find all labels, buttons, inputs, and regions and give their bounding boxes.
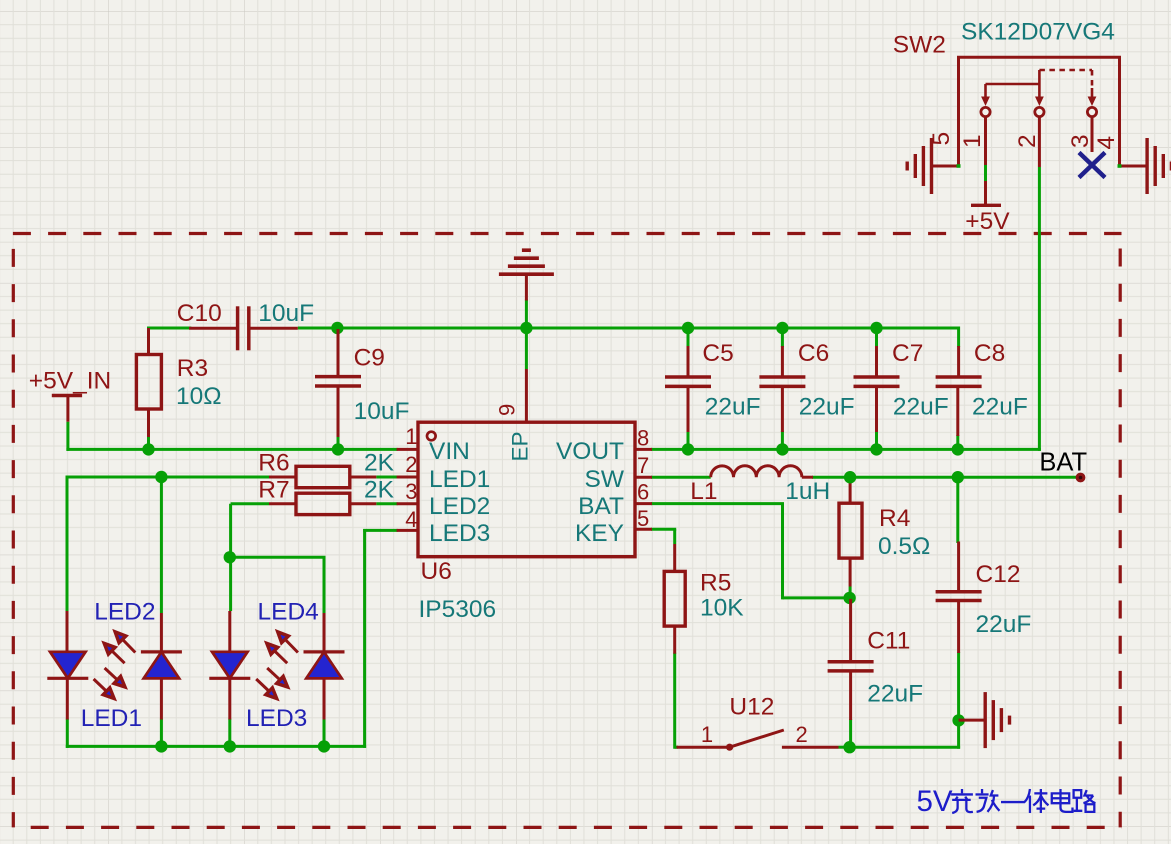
svg-text:C5: C5	[702, 340, 733, 367]
svg-text:VOUT: VOUT	[556, 438, 624, 465]
capacitor C11	[849, 599, 852, 662]
svg-text:SW: SW	[585, 466, 625, 493]
net port BAT terminal	[1076, 473, 1086, 483]
svg-text:0.5Ω: 0.5Ω	[878, 533, 930, 560]
wire LED4 branch horizontal	[228, 556, 325, 559]
wire C5 top stub	[687, 328, 690, 347]
svg-text:9: 9	[495, 404, 520, 416]
svg-text:R6: R6	[258, 450, 289, 477]
wire LED bottom bus horizontal	[66, 745, 366, 748]
dashed module boundary right edge	[1119, 249, 1122, 828]
junction C12/BAT	[952, 471, 964, 483]
hanzi fang	[976, 789, 1000, 812]
wire LED3 bottom	[228, 719, 231, 747]
pin 9 stub U6 EP	[525, 369, 528, 422]
resistor R5	[673, 544, 676, 571]
wire R4 bottom to junction	[849, 587, 852, 599]
svg-text:10K: 10K	[700, 595, 744, 622]
wire SW2 pin 4 to ground	[1120, 165, 1148, 168]
hanzi lu	[1074, 790, 1096, 812]
svg-text:C7: C7	[892, 340, 923, 367]
svg-text:LED3: LED3	[246, 705, 307, 732]
svg-text:L1: L1	[690, 478, 717, 505]
svg-text:U12: U12	[729, 694, 774, 721]
wire C6 top stub	[781, 328, 784, 347]
pin 7 stub U6 SW	[635, 476, 652, 479]
pin 4 stub U6 LED3	[397, 529, 418, 532]
inductor L1	[711, 466, 802, 477]
junction C8 bottom	[952, 443, 964, 455]
svg-text:C9: C9	[354, 344, 385, 371]
pin 5 stub U6 KEY	[635, 528, 652, 531]
dashed module boundary top edge	[13, 232, 1122, 235]
LED1 emission arrows	[105, 668, 119, 681]
wire R7 right to pin 3	[376, 502, 397, 505]
switch SW2 pin 1 lead	[984, 117, 987, 165]
svg-text:2: 2	[405, 452, 417, 477]
LED3 diode	[228, 611, 231, 652]
hanzi yi	[1001, 801, 1025, 803]
resistor R4	[839, 503, 862, 558]
svg-text:R5: R5	[700, 569, 731, 596]
svg-text:LED4: LED4	[258, 599, 319, 626]
svg-text:22uF: 22uF	[893, 393, 949, 420]
svg-text:3: 3	[1067, 134, 1094, 148]
node SW2 pin 5 connection	[957, 164, 961, 168]
wire pin1 to +5V	[984, 165, 987, 181]
wire C12 junction to ground	[959, 719, 986, 722]
junction EP ground bus	[520, 322, 532, 334]
op-amp U6 IP5306 body	[418, 422, 635, 557]
svg-text:C8: C8	[974, 340, 1005, 367]
ground right of SW2	[1145, 138, 1148, 194]
svg-text:SK12D07VG4: SK12D07VG4	[961, 19, 1115, 46]
no-connect X on SW2 pin 3	[1079, 153, 1105, 178]
junction R4/BAT	[844, 471, 856, 483]
wire LED1 top vertical	[66, 476, 69, 612]
svg-text:LED1: LED1	[429, 466, 490, 493]
svg-text:BAT: BAT	[1039, 448, 1087, 476]
svg-text:1: 1	[405, 424, 417, 449]
svg-text:EP: EP	[508, 431, 533, 461]
svg-text:22uF: 22uF	[867, 680, 923, 707]
wire top bus C10 to C8	[298, 327, 959, 330]
svg-text:R3: R3	[177, 355, 208, 382]
ground left of SW2	[930, 138, 933, 194]
svg-text:2: 2	[1014, 134, 1041, 148]
svg-text:8: 8	[637, 426, 649, 451]
svg-text:1uH: 1uH	[785, 478, 830, 505]
svg-text:5: 5	[928, 132, 955, 146]
wire pin 6 vertical	[781, 504, 784, 600]
svg-text:6: 6	[637, 480, 649, 505]
hanzi dian	[1052, 789, 1073, 812]
svg-text:22uF: 22uF	[976, 611, 1032, 638]
node SW2 pin 4 connection	[1118, 164, 1122, 168]
svg-text:LED2: LED2	[94, 599, 155, 626]
switch U12 blade	[730, 730, 784, 747]
capacitor C10	[189, 327, 238, 330]
switch U12 pin 1 lead	[677, 746, 728, 749]
svg-text:LED2: LED2	[429, 493, 490, 520]
svg-text:SW2: SW2	[893, 32, 946, 59]
wire R5 to U12 pin 1	[675, 746, 678, 749]
svg-text:C10: C10	[177, 300, 222, 327]
svg-text:C12: C12	[976, 561, 1021, 588]
junction C5 top	[682, 322, 694, 334]
junction C7 bottom	[870, 443, 882, 455]
wire net LED12 horizontal	[66, 476, 270, 479]
svg-text:10uF: 10uF	[258, 300, 314, 327]
svg-text:BAT: BAT	[578, 493, 624, 520]
svg-text:+5V: +5V	[965, 208, 1010, 235]
svg-text:R4: R4	[879, 505, 910, 532]
svg-text:5: 5	[637, 506, 649, 531]
wire BAT net to C12	[956, 477, 959, 543]
svg-text:10uF: 10uF	[354, 398, 410, 425]
junction LED2 bottom	[155, 740, 167, 752]
switch SW2 pin 2 lead	[1038, 117, 1041, 167]
switch U12 pivot	[726, 744, 733, 751]
junction LED2 tap	[155, 471, 167, 483]
wire C9 bottom to VIN net	[337, 436, 340, 449]
wire LED34 vertical	[229, 504, 232, 611]
svg-text:2: 2	[796, 722, 808, 747]
hanzi ti	[1025, 789, 1049, 813]
wire R3 top corner	[147, 327, 150, 330]
junction C5 bottom	[682, 443, 694, 455]
wire C8 top corner	[957, 327, 960, 348]
junction LED3/LED4 tap	[224, 551, 236, 563]
junction LED4 bottom	[318, 740, 330, 752]
wire C6 bottom stub	[781, 431, 784, 449]
junction U12/C11	[843, 741, 855, 753]
pin 3 stub U6 LED2	[397, 502, 418, 505]
wire C12 bottom vertical	[957, 652, 960, 749]
switch SW2 pin 3 contact circle	[1087, 107, 1096, 116]
svg-text:22uF: 22uF	[705, 393, 761, 420]
svg-text:7: 7	[637, 453, 649, 478]
switch SW2 frame	[959, 57, 1120, 166]
svg-text:4: 4	[405, 507, 417, 532]
wire U12 pin 2 to junction	[839, 746, 850, 749]
junction C6 bottom	[776, 443, 788, 455]
LED2 emission arrows	[121, 638, 135, 653]
dashed module boundary bottom edge	[31, 826, 1122, 829]
pin 8 stub U6 VOUT	[635, 448, 652, 451]
switch U12 pin 2 lead	[782, 746, 839, 749]
svg-text:5V: 5V	[917, 785, 953, 818]
resistor R7	[269, 502, 296, 505]
LED4 emission arrows	[284, 638, 298, 653]
pin 6 stub U6 BAT	[635, 502, 652, 505]
svg-text:IP5306: IP5306	[419, 596, 497, 623]
wire C7 top stub	[875, 328, 878, 347]
LED3 emission arrows	[267, 668, 281, 681]
earth ground above EP	[499, 272, 554, 276]
dashed module boundary left edge	[12, 249, 15, 828]
capacitor C6	[781, 346, 784, 377]
wire BAT net horizontal	[812, 476, 1078, 479]
wire SW2 pin 5 to ground	[932, 165, 959, 168]
wire LED1 bottom	[66, 719, 69, 748]
switch SW2 arrow onto pin 2	[1038, 84, 1041, 100]
svg-text:10Ω: 10Ω	[176, 383, 222, 410]
switch SW2 dashed alternate link	[1039, 69, 1092, 72]
switch SW2 pin 2 contact circle	[1035, 107, 1044, 116]
wire pin 6 to R4-C11 junction	[783, 596, 850, 599]
wire LED2 bottom	[160, 719, 163, 747]
junction C12/ground	[952, 714, 964, 726]
wire C8 bottom stub	[956, 435, 959, 449]
wire LED4 bottom	[323, 719, 326, 747]
power symbol +5V_IN	[52, 394, 82, 397]
svg-text:C11: C11	[867, 627, 910, 654]
switch SW2 pin 3 lead	[1091, 117, 1094, 152]
svg-text:3: 3	[405, 479, 417, 504]
switch SW2 common arm solid link	[986, 83, 1040, 86]
wire C5 bottom stub	[687, 431, 690, 449]
LED1 diode	[66, 611, 69, 652]
wire R6 right to pin 2	[376, 476, 397, 479]
wire VOUT net horizontal	[651, 448, 1041, 451]
wire pin 4 to LED bus	[363, 529, 397, 532]
svg-text:22uF: 22uF	[799, 393, 855, 420]
pin 1 marker circle inside U6	[427, 432, 436, 441]
svg-text:KEY: KEY	[575, 520, 624, 547]
wire net LED34 horizontal	[231, 502, 269, 505]
wire switch pin2 down to VOUT net	[1038, 167, 1041, 451]
wire +5V_IN vertical	[66, 422, 69, 451]
wire R3 bottom to VIN net	[147, 436, 150, 450]
wire R5 bottom vertical	[673, 653, 676, 749]
wire VIN net horizontal	[66, 448, 397, 451]
junction R3/VIN	[142, 443, 154, 455]
wire top bus left of C10	[149, 327, 192, 330]
junction R4/C11	[843, 592, 855, 604]
svg-text:+5V_IN: +5V_IN	[29, 368, 111, 395]
wire U12 pin2 junction to ground corner	[850, 746, 961, 749]
capacitor C12	[957, 542, 960, 592]
junction C6 top	[776, 322, 788, 334]
svg-text:1: 1	[701, 722, 713, 747]
svg-text:VIN: VIN	[429, 438, 470, 465]
wire LED2 top vertical	[160, 477, 163, 613]
hanzi chong	[951, 789, 973, 813]
wire C7 bottom stub	[875, 431, 878, 449]
wire LED bus right vertical	[363, 529, 366, 748]
wire LED4 top vertical	[323, 557, 326, 613]
svg-text:LED1: LED1	[81, 705, 142, 732]
wire EP ground stem	[525, 300, 528, 370]
resistor R3	[147, 328, 150, 355]
wire pin 5 stub	[651, 528, 676, 531]
switch SW2 arrow onto pin 1	[984, 84, 987, 100]
wire pin 7 to L1	[651, 476, 711, 479]
svg-text:U6: U6	[421, 558, 452, 585]
capacitor C8	[957, 346, 960, 377]
capacitor C9	[337, 329, 340, 377]
junction C7 top	[870, 322, 882, 334]
switch SW2 arrow onto pin 3	[1091, 88, 1094, 100]
LED4 diode	[323, 613, 326, 656]
wire pin 5 down to R5	[673, 529, 676, 544]
junction C10/C9 top bus	[331, 322, 343, 334]
pin 1 stub U6 VIN	[397, 448, 418, 451]
capacitor C5	[687, 346, 690, 377]
switch SW2 pin 1 contact circle	[981, 107, 990, 116]
svg-text:4: 4	[1093, 136, 1120, 150]
junction C9/VIN	[332, 443, 344, 455]
junction LED3 bottom	[224, 740, 236, 752]
svg-text:2K: 2K	[364, 477, 395, 504]
svg-text:R7: R7	[258, 477, 289, 504]
capacitor C7	[875, 346, 878, 377]
power symbol +5V	[971, 204, 1001, 207]
svg-text:C6: C6	[798, 340, 829, 367]
svg-text:1: 1	[959, 134, 986, 148]
svg-text:22uF: 22uF	[972, 393, 1028, 420]
lead BAT net to R4	[849, 477, 852, 503]
wire C11 bottom	[849, 719, 852, 747]
ground bottom right	[984, 692, 987, 748]
wire pin 6 horizontal	[651, 502, 784, 505]
svg-text:2K: 2K	[364, 450, 395, 477]
LED2 diode	[160, 613, 163, 656]
svg-text:LED3: LED3	[429, 520, 490, 547]
resistor R6	[269, 476, 296, 479]
pin 2 stub U6 LED1	[397, 476, 418, 479]
